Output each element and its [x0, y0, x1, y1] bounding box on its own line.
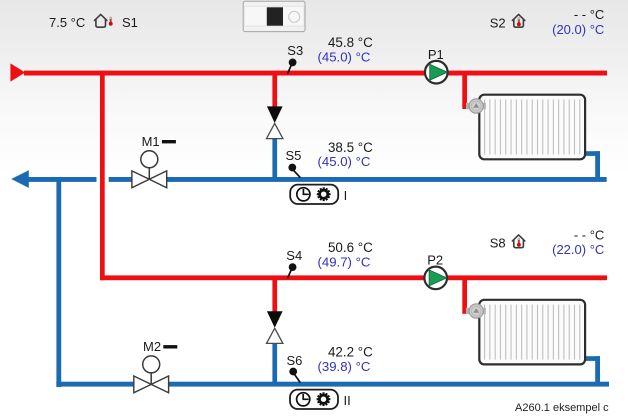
svg-text:(22.0) °C: (22.0) °C: [552, 242, 604, 257]
valve label dash (M1): [162, 140, 176, 143]
wire: red supply line 1 (horizontal): [24, 71, 607, 76]
wire: red drop to valve 1: [272, 75, 277, 108]
clock icon (I): [297, 188, 310, 201]
valve 2 lower white triangle: [267, 328, 283, 343]
valve label dash (M2): [163, 345, 177, 348]
svg-text:45.8 °C: 45.8 °C: [328, 35, 373, 50]
svg-text:42.2 °C: 42.2 °C: [328, 345, 373, 360]
wire: blue from valve 1 to return 1: [272, 138, 277, 181]
wire: radiator 1 outlet horizontal: [583, 151, 600, 156]
supply inlet arrow (red, pointing right): [10, 63, 25, 81]
control widget box: [243, 1, 305, 31]
controller box II: [290, 390, 338, 409]
svg-text:M1: M1: [142, 134, 160, 149]
valve actuator circle (M1): [141, 151, 158, 180]
pump P2: [424, 267, 447, 290]
controller box I: [290, 185, 338, 204]
pump P1: [425, 61, 448, 84]
svg-text:(39.8) °C: (39.8) °C: [317, 359, 370, 374]
control widget black square: [267, 7, 283, 25]
gear icon (II): [317, 392, 331, 406]
valve 1 lower white triangle: [267, 123, 283, 138]
thermometer (S1, outside house): [109, 17, 113, 26]
house icon with thermometer (S8): [512, 235, 524, 248]
svg-text:S1: S1: [122, 15, 138, 30]
svg-text:(45.0) °C: (45.0) °C: [317, 154, 370, 169]
return outlet arrow (blue, pointing left): [11, 170, 29, 188]
wire: red drop to valve 2: [272, 280, 277, 313]
svg-text:M2: M2: [143, 339, 161, 354]
valve body M1 (two triangles): [132, 171, 167, 188]
house icon with thermometer (S2): [512, 14, 524, 27]
svg-text:(20.0) °C: (20.0) °C: [552, 22, 604, 37]
wire: blue from valve 2 to return 2: [272, 343, 277, 386]
svg-text:P2: P2: [427, 253, 443, 268]
sensor S3 probe: [288, 59, 297, 74]
sensor S6 probe: [289, 368, 300, 383]
svg-text:(45.0) °C: (45.0) °C: [317, 50, 370, 65]
wire: red supply line 2 (horizontal): [100, 275, 607, 280]
svg-text:S8: S8: [490, 236, 506, 251]
sensor S5 probe: [288, 164, 300, 178]
radiator inlet valve (radiator 2): [466, 304, 486, 318]
wire: blue return line 1 left segment: [28, 177, 97, 182]
svg-text:- - °C: - - °C: [574, 7, 604, 22]
gear icon (I): [317, 187, 331, 201]
svg-text:A260.1 eksempel c: A260.1 eksempel c: [515, 402, 609, 414]
control widget faint knob circle: [289, 11, 300, 22]
svg-text:S5: S5: [286, 148, 302, 163]
svg-text:(49.7) °C: (49.7) °C: [317, 255, 370, 270]
valve 2 upper black triangle: [267, 311, 283, 328]
svg-text:S3: S3: [287, 43, 303, 58]
svg-text:7.5 °C: 7.5 °C: [49, 15, 85, 30]
house icon (S1): [95, 14, 107, 27]
wire: red vertical main drop to circuit 2: [100, 71, 105, 281]
wire: radiator 2 outlet vertical: [595, 356, 600, 386]
valve body M2 (two triangles): [134, 376, 169, 393]
svg-text:S4: S4: [286, 248, 302, 263]
radiator 2: [479, 300, 585, 365]
wire: blue return line 2 (horizontal): [56, 382, 609, 387]
svg-text:50.6 °C: 50.6 °C: [328, 240, 373, 255]
wire: radiator 2 outlet horizontal: [583, 356, 600, 361]
wire: red drop to radiator 1: [462, 75, 467, 109]
radiator 1: [479, 95, 585, 160]
svg-text:S2: S2: [490, 16, 506, 31]
svg-text:S6: S6: [287, 353, 303, 368]
wire: red drop to radiator 2: [462, 280, 467, 314]
svg-text:38.5 °C: 38.5 °C: [328, 140, 373, 155]
clock icon (II): [297, 393, 310, 406]
svg-text:- - °C: - - °C: [574, 227, 604, 242]
radiator inlet valve (radiator 1): [466, 99, 486, 113]
sensor S4 probe: [288, 263, 297, 278]
valve 1 upper black triangle: [267, 106, 283, 123]
svg-text:I: I: [344, 188, 348, 203]
valve actuator circle (M2): [143, 356, 160, 385]
svg-text:II: II: [344, 393, 351, 408]
wire: radiator 1 outlet vertical: [595, 151, 600, 181]
wire: blue return line 1 right segment: [109, 177, 607, 182]
wire: blue vertical drop to return line 2: [56, 177, 61, 387]
svg-text:P1: P1: [428, 47, 444, 62]
